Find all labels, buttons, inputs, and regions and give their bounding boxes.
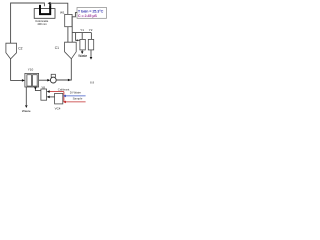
drop to Y2 [90,33,92,40]
arrowhead into pump [47,79,50,82]
legend readout box [77,8,107,19]
red riser calibrant-sample [63,92,65,102]
arrowhead on column outlet [48,2,51,5]
manifold wire [72,32,91,34]
wire Y10 to Y8 [35,87,41,91]
wire Y10 to pump [39,79,50,81]
arrowhead into Y8 from VC4 [47,96,50,99]
valve Y8 [41,89,47,100]
svg-text:W1: W1 [60,11,65,15]
vessel C1 [65,42,77,59]
wire C2 feed from column top-left [11,3,45,43]
svg-text:T bain = 25.3°C: T bain = 25.3°C [78,9,104,13]
valve VC4 [55,93,63,104]
waste arrow from Y2 [90,50,92,57]
thermostat bath [34,9,55,19]
sensor W1 [65,14,72,26]
svg-text:Calibrant: Calibrant [58,88,70,92]
svg-text:Y1: Y1 [80,28,84,32]
pump P1 [51,74,55,77]
svg-text:Y8: Y8 [41,86,45,90]
column U-tube [40,4,50,14]
probe wire from legend [72,13,77,43]
svg-text:Sample: Sample [73,96,83,100]
wire column to W1 [50,3,68,14]
svg-text:Y2: Y2 [89,28,93,32]
wire pump to C1 riser [56,59,71,80]
red arrowhead into VC4 [63,101,66,104]
svg-text:400 mm: 400 mm [37,22,46,26]
valve Y2 [88,39,93,50]
svg-text:Waste: Waste [78,54,87,58]
wire W1 to C1 [67,27,69,43]
arrowhead at riser [68,79,71,82]
svg-text:8.8: 8.8 [90,80,95,84]
svg-text:Waste: Waste [22,109,31,113]
blue arrowhead into VC4 [63,95,66,98]
svg-text:C = 2.45 µS: C = 2.45 µS [78,14,98,18]
arrowhead on Y1 feed [76,39,77,41]
svg-text:Y10: Y10 [28,68,34,72]
svg-text:C1: C1 [55,46,59,50]
wire VC4 to Y8 [49,96,55,98]
calibrant line red [49,91,64,93]
wire Y10 waste [25,87,27,105]
arrowhead into Y10 [22,79,25,82]
DI water line blue [65,95,86,97]
vessel C2 [6,43,17,59]
drop to Y1 valve side [76,33,80,41]
wire C2 drain to Y10 [11,59,24,81]
svg-text:VC4: VC4 [55,106,61,110]
arrowhead down from Y10 [34,87,37,89]
arrowhead calibrant into Y8 [47,90,50,93]
waste arrow from Y1 [81,50,83,52]
sample line red [64,101,86,103]
svg-text:C2: C2 [18,46,22,50]
svg-text:DI Water: DI Water [70,90,81,94]
valve Y1 [80,39,85,50]
filter unit Y10 [25,73,39,87]
drop to Y1 [81,33,83,40]
